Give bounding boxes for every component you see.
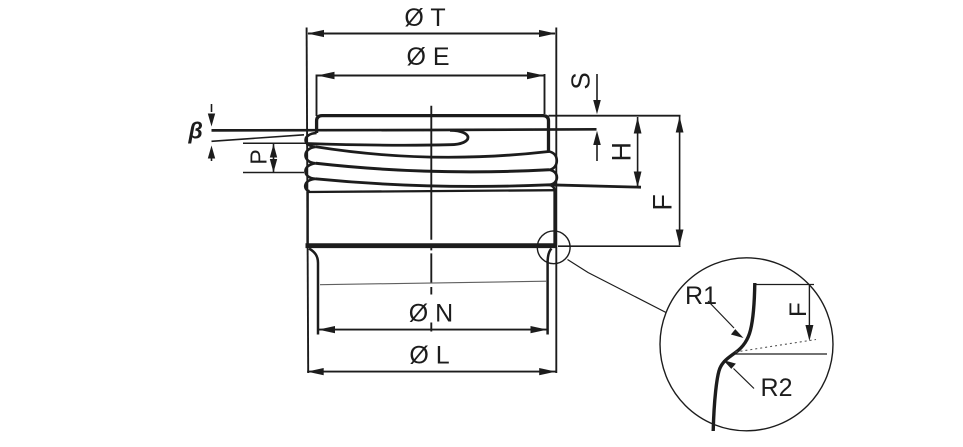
detail view small circle (537, 231, 570, 264)
extension line left (serves ØT and ØL) (307, 28, 309, 374)
P reference line top (243, 142, 306, 144)
beta arrow upper (pointing down) (211, 104, 213, 112)
centerline (vertical dash-dot) (430, 106, 432, 332)
H dimension double arrow (637, 117, 639, 187)
detail flank dotted line (736, 340, 817, 353)
svg-text:P: P (246, 149, 272, 164)
leader line to detail circle (568, 260, 667, 313)
ØN dimension line (319, 329, 548, 331)
neck top reference line extended right (for S,H,F) (549, 115, 681, 117)
collar left edge (306, 192, 309, 245)
P dimension arrow (273, 144, 275, 173)
thread crest line L1 (beta/S reference) (212, 129, 597, 130)
extension line ØE left (316, 75, 318, 117)
beta lower converging line (212, 135, 305, 142)
body below ledge left edge (ØN extension) (309, 249, 318, 335)
dimension line ØT (308, 33, 555, 35)
support ledge thick line (306, 243, 558, 248)
svg-text:S: S (566, 72, 596, 89)
R1 leader arrow (708, 301, 734, 328)
svg-text:H: H (607, 142, 637, 162)
neck outline top (317, 116, 549, 152)
F dimension double arrow (679, 116, 681, 245)
extension line right (serves ØT and ØL) (555, 28, 557, 374)
extension line ØE right (544, 74, 546, 114)
thread bumps left edge (305, 133, 316, 191)
P reference line bottom (243, 172, 304, 174)
detail view big circle (660, 258, 833, 431)
F bottom reference line extended right (558, 245, 681, 247)
R2 leader arrow (734, 369, 755, 389)
thread 2 top line (sagging helix) (316, 147, 549, 157)
detail F bottom reference line (733, 353, 827, 355)
faint body contour line (320, 281, 547, 285)
thread bumps right edge (549, 152, 557, 192)
detail F top reference line (754, 284, 814, 286)
svg-text:F: F (648, 194, 678, 211)
S dimension arrows (596, 74, 598, 100)
svg-text:Ø E: Ø E (406, 43, 449, 71)
body below ledge right edge (ØN extension) (548, 249, 552, 335)
collar right edge (553, 192, 556, 245)
svg-text:Ø L: Ø L (409, 342, 449, 370)
thread 2/3 boundary line (sagging helix) (316, 163, 549, 172)
detail F dimension line with arrow (808, 285, 810, 326)
svg-text:β: β (188, 118, 203, 144)
detail profile curve (713, 283, 755, 431)
svg-text:Ø N: Ø N (409, 300, 453, 328)
thread 3/4 boundary line continuing as H reference (316, 179, 642, 187)
svg-text:R2: R2 (761, 374, 793, 402)
svg-text:F: F (785, 302, 812, 317)
svg-text:Ø T: Ø T (404, 4, 445, 32)
beta arrow lower (pointing up) (211, 158, 213, 161)
thread 1 lower edge with rounded end cap (306, 130, 468, 145)
ØL dimension line (307, 371, 556, 373)
collar top line (307, 190, 556, 192)
dimension line ØE (317, 75, 545, 77)
